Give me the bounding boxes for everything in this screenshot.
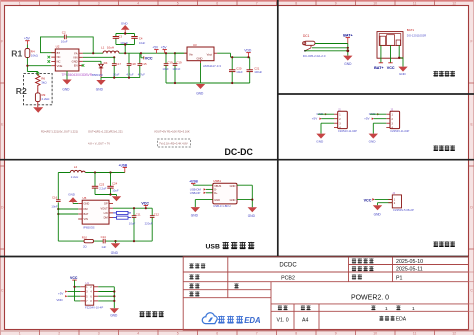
svg-text:10kΩ: 10kΩ	[31, 53, 39, 57]
section label 测试引脚	[139, 311, 163, 317]
svg-text:4.8 < V_OUT < 7V: 4.8 < V_OUT < 7V	[88, 142, 110, 146]
svg-text:10: 10	[373, 1, 377, 5]
svg-text:GND: GND	[68, 193, 76, 197]
wire C2 loop left	[41, 37, 65, 53]
dashed feedback box	[24, 73, 53, 104]
junction dot BAT1 gnd	[398, 57, 400, 59]
wire caps bottom + ground	[95, 195, 117, 197]
value P1	[396, 275, 403, 281]
connector J2 servo header A	[334, 108, 357, 133]
net label USB-DM	[190, 188, 213, 192]
capacitor C15 below rail	[138, 53, 147, 77]
wire bottom gnd bus left	[101, 77, 140, 79]
svg-text:10uF: 10uF	[112, 189, 119, 193]
power flag VCC test	[70, 276, 78, 280]
svg-text:IP6503S: IP6503S	[83, 226, 95, 230]
svg-text:J4: J4	[392, 191, 395, 195]
value A4	[302, 318, 308, 324]
formula text line C	[154, 130, 190, 146]
wire J2	[318, 114, 334, 133]
port flag VCC motor	[364, 198, 375, 202]
svg-text:DC1: DC1	[303, 34, 310, 38]
svg-text:P1: P1	[396, 275, 403, 281]
svg-text:GND: GND	[248, 214, 256, 218]
ground under R9	[33, 107, 43, 113]
svg-text:GND: GND	[344, 62, 352, 66]
svg-text:7V≥2.1K+R2=3.4K 4.8V: 7V≥2.1K+R2=3.4K 4.8V	[159, 142, 188, 146]
svg-text:L1 10uH: L1 10uH	[101, 46, 114, 50]
capacitor C4 input loop right	[131, 36, 145, 45]
ground up flag at U5 pin1	[68, 193, 77, 204]
svg-text:VOUT: VOUT	[100, 206, 108, 210]
svg-text:1: 1	[385, 306, 388, 312]
svg-text:C17: C17	[116, 62, 122, 66]
junction VCC row1	[73, 286, 75, 288]
wire gnd flag to U5	[73, 203, 78, 205]
svg-text:L2: L2	[74, 165, 78, 169]
svg-text:2025-05-10: 2025-05-10	[396, 259, 423, 265]
svg-text:NC: NC	[57, 55, 61, 59]
svg-text:LIN: LIN	[104, 211, 108, 215]
label 图页	[352, 274, 362, 279]
svg-text:EN: EN	[74, 64, 78, 68]
svg-text:DM: DM	[104, 216, 108, 220]
ground under C23 C24	[112, 196, 121, 201]
svg-text:C16: C16	[52, 196, 58, 200]
svg-text:VCC: VCC	[70, 276, 78, 280]
svg-text:D4: D4	[104, 61, 108, 65]
wire H1 right pins to gnd	[98, 287, 114, 308]
resistor R10 inline	[82, 236, 94, 249]
svg-text:GND: GND	[230, 198, 236, 202]
wire usb top rail	[58, 172, 125, 174]
label 创建日期	[352, 258, 374, 263]
port flag BAT+	[343, 34, 352, 44]
svg-text:FZ254V-11-04P: FZ254V-11-04P	[391, 129, 410, 133]
svg-text:VBUS: VBUS	[214, 184, 221, 188]
svg-text:1: 1	[19, 1, 21, 5]
svg-text:4.7uF: 4.7uF	[138, 72, 145, 76]
power flag +5V rail b	[161, 46, 168, 54]
junction SW	[92, 52, 94, 54]
IC U5 charge pump	[78, 196, 113, 230]
svg-text:DM: DM	[84, 207, 88, 211]
svg-text:GND: GND	[316, 140, 324, 144]
junction dots gnd bus right	[174, 82, 233, 84]
capacitor C16 on left vertical	[51, 196, 60, 209]
ground under U2	[62, 71, 71, 92]
ground right of USB1	[248, 207, 257, 218]
svg-text:DP: DP	[104, 202, 108, 206]
svg-text:+USB: +USB	[189, 180, 198, 184]
connector J4 motor header	[388, 191, 414, 212]
ground on right bus	[196, 84, 205, 96]
section label 电源输入	[433, 71, 455, 76]
capacitor C11	[129, 207, 141, 241]
svg-text:GND: GND	[72, 59, 78, 63]
svg-text:D+: D+	[214, 191, 218, 195]
resistor R7 blue usb dp	[113, 211, 131, 214]
svg-text:11: 11	[413, 1, 417, 5]
svg-text:10uF: 10uF	[61, 40, 68, 44]
junction dots on left vertical	[57, 208, 59, 215]
svg-text:+USB: +USB	[119, 163, 128, 167]
svg-text:GND: GND	[369, 140, 377, 144]
svg-text:VOE: VOE	[57, 64, 63, 68]
svg-text:8: 8	[295, 1, 297, 5]
capacitor C2 bootstrap	[61, 30, 68, 43]
section label 舵机输出	[433, 145, 455, 150]
voltage regulator U3 AMS1117	[184, 43, 221, 83]
svg-text:220uF: 220uF	[145, 222, 153, 226]
value V1.0	[277, 318, 289, 324]
junction dots DC1	[346, 47, 349, 52]
svg-text:4: 4	[137, 1, 139, 5]
section divider h middle	[0, 159, 474, 161]
svg-text:5: 5	[177, 1, 179, 5]
svg-text:VOUT=5V R1=10K R2=3.16K: VOUT=5V R1=10K R2=3.16K	[154, 130, 190, 134]
svg-text:C14: C14	[101, 235, 107, 239]
wire U5 vout rail	[113, 207, 152, 209]
net label GND at J2 pin1	[317, 112, 328, 116]
svg-text:VCC: VCC	[364, 198, 372, 202]
svg-text:C18: C18	[131, 62, 137, 66]
svg-text:FZ254V-11-04P: FZ254V-11-04P	[338, 129, 357, 133]
svg-text:10nF: 10nF	[51, 204, 58, 208]
header 尺寸	[301, 305, 311, 310]
junction dots rail left	[113, 32, 126, 58]
svg-text:10uF: 10uF	[236, 70, 243, 74]
svg-text:2.2uF: 2.2uF	[99, 187, 106, 191]
junction dots H1 gnd	[113, 290, 115, 302]
connector H1 test header	[80, 281, 103, 310]
svg-text:GND: GND	[214, 198, 220, 202]
svg-text:FZ254V-5.08-2P: FZ254V-5.08-2P	[393, 208, 414, 212]
value 宁	[234, 283, 238, 288]
section label USB快充输出	[206, 244, 220, 251]
svg-text:VDD: VDD	[56, 298, 63, 302]
svg-text:C24: C24	[112, 181, 118, 185]
formula text line B	[88, 130, 123, 146]
net label +5V at J2 pin2	[312, 117, 322, 121]
svg-text:D-: D-	[214, 187, 217, 191]
capacitor C17 below rail	[112, 57, 121, 77]
svg-text:GND: GND	[374, 213, 382, 217]
svg-text:4: 4	[137, 331, 139, 335]
svg-text:+5V: +5V	[312, 117, 317, 121]
label 审阅	[189, 291, 199, 296]
capacitor C20	[229, 56, 243, 83]
formula text line A	[41, 130, 78, 134]
logo text 嘉立创EDA	[218, 316, 243, 323]
resistor R6 zigzag	[36, 74, 48, 87]
big gray label R1	[11, 48, 22, 58]
svg-text:GND: GND	[62, 88, 70, 92]
svg-text:3: 3	[98, 331, 100, 335]
port flag VCC usb	[141, 201, 149, 209]
capacitor C19a	[162, 52, 173, 83]
svg-text:VIN: VIN	[73, 55, 78, 59]
svg-text:10: 10	[373, 331, 377, 335]
value PCB2	[281, 275, 295, 281]
capacitor C24	[107, 173, 119, 195]
inductor L2	[70, 165, 85, 179]
svg-text:R10: R10	[82, 236, 88, 240]
svg-text:7: 7	[256, 331, 258, 335]
svg-text:AMS1117-3.3: AMS1117-3.3	[203, 64, 221, 68]
wire USB1 gnd left	[195, 200, 213, 208]
svg-text:DC-005-2.0A-2.0: DC-005-2.0A-2.0	[303, 54, 326, 58]
junction dot C24 bottom	[109, 193, 111, 195]
svg-text:POWER2. 0: POWER2. 0	[351, 295, 389, 302]
net label GND at J3 pin1	[369, 112, 380, 116]
wire U3 in/out	[175, 53, 250, 57]
svg-text:2.2kΩ: 2.2kΩ	[42, 97, 51, 101]
svg-text:Vout: Vout	[207, 52, 213, 56]
value POWER2.0	[351, 295, 389, 302]
inductor L1	[101, 46, 119, 54]
svg-text:R1: R1	[11, 48, 22, 58]
wire R4 bottom to U2 pin4 and down	[27, 58, 51, 74]
svg-text:USB1: USB1	[213, 179, 221, 183]
input cap loop wires	[116, 34, 135, 54]
svg-text:C11: C11	[136, 212, 141, 216]
wire BAT1 pin leads	[381, 45, 403, 66]
svg-text:7: 7	[256, 1, 258, 5]
port flag VCC under BAT1	[387, 63, 395, 70]
label 原理图	[189, 263, 205, 268]
svg-text:12: 12	[452, 331, 456, 335]
wire VIN row	[83, 56, 114, 58]
svg-text:Vin: Vin	[189, 52, 193, 56]
label 更新日期	[352, 266, 374, 271]
wire C2 loop right to SW node	[66, 37, 93, 53]
svg-text:DG-12011002R: DG-12011002R	[407, 34, 426, 38]
svg-text:1: 1	[412, 306, 415, 312]
section label 电机输出	[433, 241, 455, 246]
no-connect x at box top	[37, 72, 40, 75]
net label VDD test	[56, 295, 80, 302]
svg-text:R2=(R1*1.221)/(V_OUT-1.221): R2=(R1*1.221)/(V_OUT-1.221)	[41, 130, 78, 134]
diode D4	[92, 61, 108, 78]
svg-text:+5V: +5V	[58, 291, 63, 295]
connector DC1 barrel jack	[303, 34, 326, 58]
svg-text:VCC: VCC	[141, 201, 149, 205]
svg-text:USB-DP: USB-DP	[190, 191, 201, 195]
ground motor	[373, 205, 382, 216]
junction R4 bottom	[26, 65, 28, 67]
svg-text:U3: U3	[193, 43, 197, 47]
capacitor C21	[247, 57, 263, 83]
svg-text:F: F	[1, 40, 3, 44]
capacitor C19b	[172, 52, 182, 83]
wire DC1 pins to BAT+ node	[305, 44, 348, 56]
svg-text:6: 6	[216, 331, 218, 335]
svg-text:B5819W: B5819W	[92, 73, 103, 77]
svg-text:5: 5	[177, 331, 179, 335]
wire U5 left pins to input	[58, 209, 78, 214]
svg-text:100uF: 100uF	[254, 70, 262, 74]
port flag BAT+ under BAT1	[374, 63, 383, 70]
svg-text:FA: FA	[74, 51, 77, 55]
ground up flag over caps	[121, 21, 130, 33]
net label +5V test	[58, 290, 80, 295]
svg-text:V1. 0: V1. 0	[277, 318, 289, 324]
wire bottom gnd bus right	[166, 82, 250, 84]
ground under J3 wires	[369, 134, 378, 144]
wire USB1 right gnd loop	[237, 185, 252, 207]
wire J3	[370, 114, 386, 133]
section divider h bottom	[0, 256, 469, 258]
svg-text:BAT+: BAT+	[343, 34, 352, 38]
svg-text:1: 1	[19, 331, 21, 335]
svg-text:BAT1: BAT1	[407, 28, 415, 32]
svg-text:TPS560430X3DBVR: TPS560430X3DBVR	[62, 73, 93, 77]
svg-text:GND: GND	[96, 88, 104, 92]
value 嘉立创EDA small	[379, 316, 394, 321]
ground on bottom bus	[96, 78, 106, 92]
value 2025-05-10	[396, 259, 423, 265]
capacitor C3 input loop left	[113, 34, 129, 44]
svg-text:FZ254V-10-4P: FZ254V-10-4P	[85, 306, 103, 310]
svg-text:OUT=[(R1+1.221)/R2]+1.221: OUT=[(R1+1.221)/R2]+1.221	[88, 130, 123, 134]
logo JLC EDA cloud	[202, 313, 217, 324]
wire motor connector	[375, 199, 393, 205]
value DCDC	[279, 263, 297, 269]
power flag +USB top	[119, 163, 128, 172]
power flag VDD	[244, 48, 252, 58]
resistor R4	[25, 49, 39, 58]
svg-text:12: 12	[452, 1, 456, 5]
svg-text:F: F	[471, 40, 473, 44]
wire GND row to diode	[83, 61, 101, 64]
svg-text:+5V: +5V	[161, 46, 168, 50]
svg-text:U5: U5	[83, 196, 87, 200]
svg-text:C4: C4	[139, 36, 143, 40]
svg-text:BAT: BAT	[84, 212, 89, 216]
svg-text:+5V: +5V	[152, 46, 159, 50]
net label USB-DP	[190, 191, 213, 195]
svg-text:C3: C3	[118, 34, 122, 38]
capacitor C18 below rail	[126, 53, 136, 77]
junction dot right loop	[251, 199, 253, 201]
label 绘制	[189, 283, 199, 288]
wire usb bottom bus	[58, 240, 152, 242]
wire +5V to R4	[26, 45, 28, 49]
no-connect x marks U2 left pins	[48, 56, 51, 63]
capacitor C12	[145, 208, 160, 241]
resistor R9	[35, 87, 50, 107]
svg-text:VCC: VCC	[145, 57, 153, 61]
svg-text:GND: GND	[84, 202, 90, 206]
svg-text:GND: GND	[230, 184, 236, 188]
svg-text:PCB2: PCB2	[281, 275, 295, 281]
svg-text:GND: GND	[197, 57, 203, 61]
svg-text:EDA: EDA	[396, 317, 407, 323]
svg-text:U2: U2	[56, 45, 60, 49]
svg-text:VDD: VDD	[244, 48, 252, 52]
svg-text:2: 2	[58, 1, 60, 5]
svg-text:2.2uH: 2.2uH	[71, 175, 78, 179]
svg-text:10uF: 10uF	[129, 222, 136, 226]
ground H1	[110, 308, 119, 317]
svg-text:GND: GND	[121, 21, 128, 25]
svg-text:+5V: +5V	[24, 36, 31, 40]
svg-text:R2: R2	[16, 86, 27, 96]
ground under DC1 node	[343, 56, 352, 66]
op-amp U2 buck converter	[51, 45, 92, 77]
wire +USB to USB1	[193, 184, 213, 186]
svg-text:GND: GND	[191, 214, 199, 218]
svg-text:10uF: 10uF	[139, 41, 146, 45]
connector BAT1 battery terminal	[377, 32, 403, 59]
capacitor C23	[92, 173, 107, 195]
header 页 1 共 1	[371, 305, 400, 310]
svg-text:DC-DC: DC-DC	[225, 147, 254, 157]
svg-text:A4: A4	[302, 318, 308, 324]
svg-text:10uF: 10uF	[113, 72, 120, 76]
net flag VCC on rail	[140, 52, 153, 60]
power flag +USB at USB1	[189, 180, 198, 186]
svg-text:+5V: +5V	[364, 117, 369, 121]
svg-text:NC: NC	[57, 60, 61, 64]
ground usb bottom bus	[111, 241, 120, 255]
svg-text:10uF: 10uF	[162, 67, 169, 71]
svg-text:4.7uF: 4.7uF	[126, 72, 133, 76]
svg-text:DCDC: DCDC	[279, 263, 297, 269]
svg-text:9: 9	[335, 1, 337, 5]
svg-text:3kΩ: 3kΩ	[41, 80, 47, 84]
svg-text:BAT+: BAT+	[374, 66, 383, 70]
svg-text:VIN: VIN	[84, 217, 88, 221]
svg-text:USB-3.1-BCU: USB-3.1-BCU	[213, 204, 230, 208]
svg-text:6: 6	[216, 1, 218, 5]
svg-text:GND: GND	[399, 72, 407, 76]
no-connect x mark U2 EN pin	[82, 64, 85, 67]
title block row lines into right strip	[469, 272, 474, 330]
svg-text:2025-05-11: 2025-05-11	[396, 267, 423, 273]
svg-text:H1: H1	[86, 281, 90, 285]
capacitor C14 inline	[101, 235, 107, 249]
ground under J2 wires	[316, 134, 325, 144]
connector USB1	[213, 179, 237, 208]
svg-text:C19: C19	[176, 60, 182, 64]
ground under BAT1	[398, 67, 407, 77]
wire output rail	[119, 52, 188, 54]
svg-text:EDA: EDA	[244, 316, 261, 325]
junction dots usb rail	[94, 171, 112, 173]
svg-text:2: 2	[58, 331, 60, 335]
label 板子	[189, 274, 199, 279]
svg-text:C2: C2	[62, 30, 66, 34]
wire VCC vertical to H1 rows 1 and 4	[75, 280, 81, 301]
resistor R8 blue usb dm	[113, 216, 131, 219]
formula dashed box	[158, 139, 191, 147]
svg-text:100nF: 100nF	[172, 67, 180, 71]
svg-text:2Ω: 2Ω	[83, 245, 87, 249]
svg-text:GND: GND	[196, 92, 204, 96]
big gray label R2	[16, 86, 27, 96]
svg-text:C12: C12	[154, 212, 160, 216]
svg-text:8: 8	[295, 331, 297, 335]
section label DC-DC	[225, 147, 254, 157]
section divider vertical	[277, 0, 279, 257]
value 2025-05-11	[396, 267, 423, 273]
svg-text:C15: C15	[141, 62, 147, 66]
svg-text:9: 9	[335, 331, 337, 335]
net label +5V at J3 pin2	[364, 117, 374, 121]
title block table	[183, 257, 468, 330]
